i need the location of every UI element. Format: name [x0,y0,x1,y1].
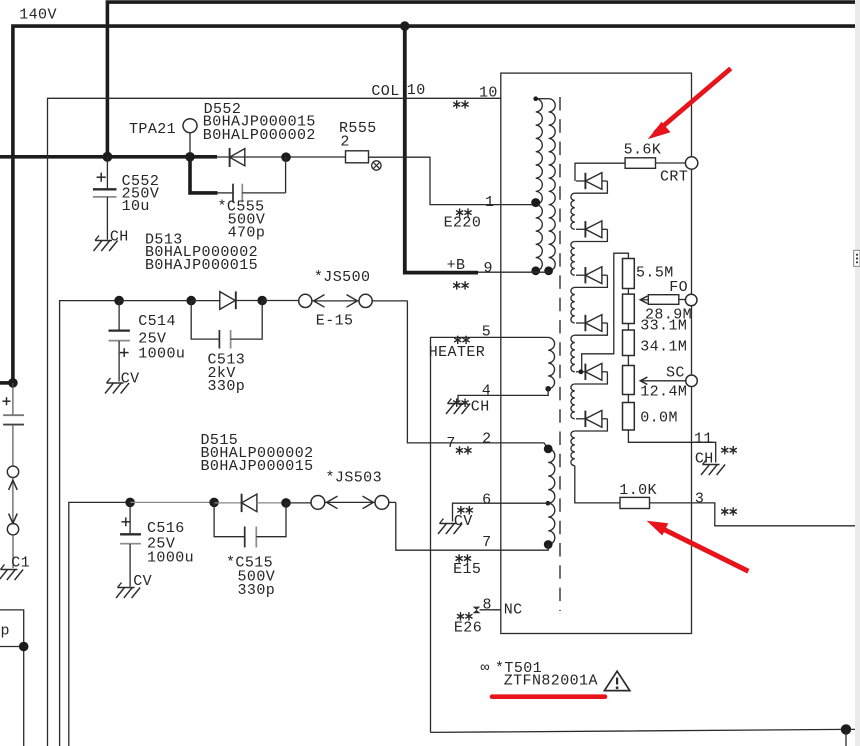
svg-text:E-15: E-15 [316,312,354,329]
wire JS500 net vertical [60,301,120,746]
connector mark pin4 [453,399,469,407]
diode HV D1 [576,173,607,190]
node pin2 [544,445,553,454]
capacitor C515 [214,502,286,547]
wire B+ horizontal 140V feed [0,155,217,159]
svg-text:C1: C1 [11,554,30,571]
label D513 part numbers [145,231,258,273]
wire pin11 to ground [628,430,715,463]
spark gap C1 [7,466,18,568]
svg-text:330p: 330p [238,582,276,599]
wire JS500 row a [119,300,191,302]
label C552 values [122,173,160,215]
wire JS503 net vertical [69,502,130,746]
svg-text:1.0K: 1.0K [619,482,657,499]
wire CRT feed [575,163,625,181]
svg-text:8: 8 [483,597,492,614]
wire to JS503 jumper [286,502,311,504]
resistor 33.1M [623,294,635,323]
connector mark pin9 [453,281,469,289]
wire pin8 stub [480,609,501,611]
node pin4 tap [545,386,551,392]
connector mark pin3 [721,507,737,515]
terminal SC [686,375,698,387]
wire top 140V bus [107,2,860,158]
transformer heater winding 5-4 [548,337,554,388]
svg-text:CH: CH [110,228,129,245]
svg-text:CV: CV [454,513,473,530]
svg-text:10: 10 [479,85,498,102]
wire D552 row [217,156,346,158]
svg-text:FO: FO [669,279,688,296]
scrollbar handle [854,250,860,266]
junction divider tap [579,369,584,374]
svg-text:p: p [1,622,10,639]
resistor 0.0M [623,403,635,431]
junction C513 left [186,296,196,306]
svg-text:B0HAJP000015: B0HAJP000015 [145,257,258,274]
svg-text:*JS500: *JS500 [314,269,371,286]
wire JS500 to pin2 [372,300,407,302]
svg-text:10: 10 [407,82,426,99]
wire pin2 from JS500 [407,301,548,449]
junction 140V/C552 [102,152,112,162]
svg-text:0.0M: 0.0M [640,409,678,426]
diode D513 [220,291,262,309]
wire divider tap [582,253,629,372]
wire pin7 from JS503 [396,502,548,550]
svg-text:*JS503: *JS503 [326,469,383,486]
terminal CRT [685,157,697,169]
wire pin5 heater feed [431,337,549,732]
connector mark pin2 [456,446,472,454]
ground CV C514 [105,371,140,394]
resistor 5.5M [623,259,635,289]
wire left thick stub [0,381,14,385]
transformer T501 box [501,73,692,633]
svg-text:C514: C514 [138,313,176,330]
svg-text:2: 2 [340,133,349,150]
wire pin6 to ground [453,503,548,521]
svg-text:10u: 10u [122,198,150,215]
wire winding6 to pin3 [575,466,620,503]
wire pin9 +B [478,271,550,273]
label C515 values [226,554,275,599]
resistor 1.0K [620,497,650,508]
warning triangle [604,671,629,690]
wire R555 to pin1 [369,157,536,204]
svg-text:5.6K: 5.6K [624,142,662,159]
capacitor C552 [93,157,117,240]
junction D552/C555 [281,152,291,162]
junction on 140V bus [400,21,410,31]
svg-text:12.4M: 12.4M [640,384,687,401]
node pin9 A [531,266,540,275]
diode HV D2 [576,221,607,238]
wire to D515 [214,502,242,504]
svg-text:140V: 140V [19,7,57,24]
wire HV stage 3 [575,275,608,287]
wire HV stage 1 [575,181,608,193]
capacitor C514 [109,301,130,382]
transformer primary winding A [536,99,543,271]
wire pin4 to ground [458,389,548,402]
wiper arrow SC [640,377,685,384]
transformer HV winding 5 [571,384,575,419]
diode D552 [230,148,245,167]
wire HV stage 6 [575,419,608,431]
svg-text:B0HAJP000015: B0HAJP000015 [201,458,314,475]
svg-text:5.5M: 5.5M [636,265,674,282]
svg-text:COL: COL [371,83,399,100]
label C516 values [147,520,194,566]
svg-text:11: 11 [694,431,713,448]
ground CH pin11 [695,450,725,475]
junction TPA21 [185,152,195,162]
connector mark pin6 [457,506,473,514]
svg-text:NC: NC [504,601,523,618]
red underline [492,694,605,699]
wire JS503 row a [130,501,214,503]
svg-text:ZTFN82001A: ZTFN82001A [504,672,598,689]
svg-text:∞: ∞ [481,660,490,677]
transformer winding 2-6 [548,449,555,503]
diode D515 [242,494,286,512]
wire bottom right drop [845,729,847,746]
scrollbar track [855,0,860,746]
red arrow top [648,68,731,139]
svg-text:+B: +B [447,257,466,274]
resistor R555 [346,151,369,163]
ground CV C516 [116,573,152,598]
red arrow bottom [647,521,749,571]
svg-text:1: 1 [485,194,494,211]
svg-text:B0HALP000002: B0HALP000002 [203,127,316,144]
junction left bus [8,378,18,388]
connector mark pin8 [457,612,473,620]
test point TPA21 [183,119,197,152]
label D552 part numbers [203,101,316,144]
connector mark pin10 [453,100,469,108]
symbol crossed circle [372,161,381,170]
transformer HV winding 1 [571,193,575,229]
diode HV D6 [576,410,607,427]
wire chain 3-4 [627,356,629,366]
junction C516 [125,498,135,508]
junction bottom right [841,724,851,734]
svg-text:1000u: 1000u [138,345,185,362]
svg-text:330p: 330p [208,378,246,395]
transformer HV winding 2 [571,242,575,276]
svg-text:7: 7 [446,435,455,452]
svg-text:1000u: 1000u [147,549,194,566]
svg-text:28.9M: 28.9M [645,306,692,323]
svg-text:CH: CH [471,399,490,416]
svg-text:7: 7 [482,534,491,551]
transformer core dashed line [559,97,561,611]
wire chain 4-5 [627,395,629,403]
wire to D513 [191,300,220,302]
diode HV D4 [576,315,607,332]
junction C515 left [209,498,219,508]
connector mark pin7 [456,554,472,562]
wire COL net [48,98,501,746]
ground CV pin6 [438,513,473,534]
wire pin3 out [650,503,856,526]
svg-text:6: 6 [482,492,491,509]
wire JS503 to corner [389,501,396,503]
transformer primary winding B [536,99,555,271]
ground CH C552 [94,228,129,251]
node pin9 B [544,266,553,275]
terminal FO [685,294,697,306]
label R555 [339,120,377,150]
label C555 values [218,198,266,241]
connector mark pin11 [721,446,737,454]
connector mark pin5 [454,336,470,344]
svg-text:E220: E220 [444,214,482,231]
wire p net [0,647,24,746]
resistor FO focus [648,295,679,305]
transformer HV winding 6 [571,431,575,466]
wire FO to terminal [679,299,686,301]
wire thick stub to C555 [190,157,218,193]
wire HV stage 5 [575,372,608,384]
svg-text:SC: SC [666,364,685,381]
junction C515 right [281,498,291,508]
wire HV stage 4 [575,323,608,335]
svg-text:E15: E15 [453,561,481,578]
capacitor C555 [218,157,286,202]
resistor 12.4M [623,366,635,395]
transformer HV winding 3 [571,287,575,323]
junction C513 right [257,296,267,306]
svg-text:E26: E26 [454,620,482,637]
junction p net [19,642,29,652]
wiper arrow FO [640,296,648,303]
wire to JS500 jumper [262,300,298,302]
resistor 34.1M [623,330,635,356]
svg-text:4: 4 [482,383,491,400]
wire 5.6K to CRT [656,162,686,164]
svg-text:3: 3 [695,490,704,507]
svg-text:470p: 470p [228,224,266,241]
label D515 part numbers [201,432,314,475]
svg-text:CV: CV [121,371,140,388]
svg-text:TPA21: TPA21 [129,121,176,138]
node pin10 [533,96,538,101]
capacitor C516 [120,502,141,586]
node pin1 [531,198,540,207]
svg-text:5: 5 [482,323,491,340]
ground C1 [0,565,23,581]
capacitor left C [3,383,25,466]
jumper JS500 [299,294,373,307]
svg-text:CV: CV [133,573,152,590]
wire 140V bus [13,26,860,385]
node pin7 [544,540,553,549]
label T501 [481,660,598,690]
connector mark pin1 [456,208,472,216]
svg-text:HEATER: HEATER [429,344,486,361]
junction C514 [114,296,124,306]
svg-text:9: 9 [484,260,493,277]
wire bottom return [431,729,856,732]
wire chain 2-3 [627,324,629,331]
unconnected mark pin8 [473,607,481,614]
svg-text:CRT: CRT [660,169,688,186]
capacitor C513 [191,301,262,349]
wire HV stage 2 [575,229,608,241]
jumper JS503 [311,496,389,510]
wire chain 1-2 [627,289,629,295]
svg-text:2: 2 [482,431,491,448]
wire collector thick drop to +B [405,26,478,273]
diode HV D5 [576,363,607,380]
label C513 values [208,351,246,395]
label COL 10 [371,82,425,100]
diode HV D3 [576,267,607,284]
node pin6 tap [546,501,551,506]
ground CH pin4 [446,399,490,416]
transformer HV winding 4 [571,335,575,372]
resistor 5.6K [625,158,655,169]
svg-text:34.1M: 34.1M [640,339,687,356]
box fragment p [0,610,24,647]
label C514 values [138,313,185,362]
transformer winding 6-7 [548,503,555,544]
